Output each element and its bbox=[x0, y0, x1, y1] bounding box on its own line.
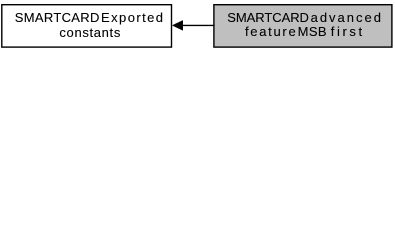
right node label, line 2 word 1: feature bbox=[245, 25, 297, 38]
left node label, line 1 word 1: SMARTCARD bbox=[15, 11, 100, 24]
node box: SMARTCARD advanced feature MSB first (right, highlighted) bbox=[214, 5, 392, 47]
edge arrowhead bbox=[172, 21, 182, 31]
left node label, line 2: constants bbox=[59, 26, 121, 39]
node box: SMARTCARD Exported constants (left) bbox=[2, 5, 172, 47]
right node label, line 1 word 1: SMARTCARD bbox=[227, 11, 309, 24]
right node label, line 1 word 2: advanced bbox=[311, 11, 383, 24]
right node label, line 2 word 2: MSB bbox=[298, 25, 327, 38]
left node label, line 1 word 2: Exported bbox=[101, 11, 164, 24]
edge wire (shaft) bbox=[182, 24, 215, 26]
right node label, line 2 word 3: first bbox=[331, 25, 365, 38]
